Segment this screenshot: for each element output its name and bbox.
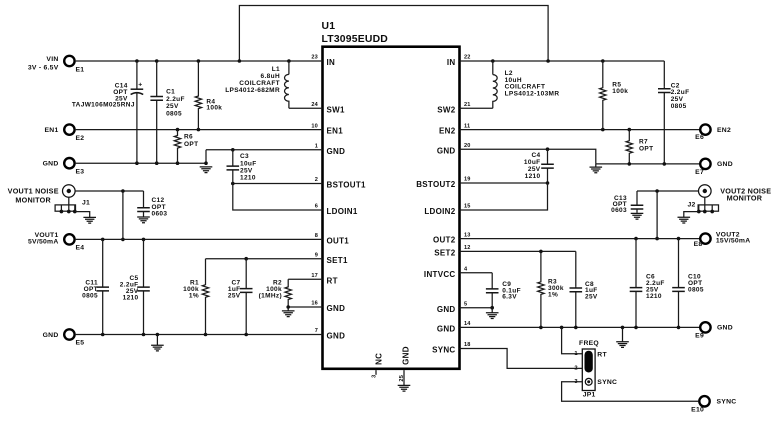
svg-text:RT: RT (327, 276, 338, 285)
svg-text:C4: C4 (531, 152, 540, 159)
terminal E6 EN2 (695, 124, 731, 141)
ground at C9 (486, 308, 499, 319)
capacitor C6 (630, 239, 665, 328)
svg-text:GND: GND (401, 346, 410, 365)
IC U1 LT3095EUDD (322, 21, 460, 369)
svg-text:24: 24 (311, 102, 318, 108)
svg-text:EN2: EN2 (717, 127, 731, 134)
pin 16 GND (311, 301, 345, 313)
pin 19 BSTOUT2 (416, 177, 470, 189)
svg-text:SW2: SW2 (437, 105, 455, 114)
svg-text:OPT: OPT (184, 141, 198, 148)
wire SET1 net (206, 257, 323, 261)
svg-text:6.3V: 6.3V (502, 294, 517, 301)
svg-text:SET1: SET1 (327, 256, 348, 265)
svg-text:GND: GND (43, 161, 59, 168)
svg-text:6.8uH: 6.8uH (261, 73, 280, 80)
svg-text:COILCRAFT: COILCRAFT (239, 80, 280, 87)
wire noise monitor J1 net (75, 189, 143, 241)
svg-text:GND: GND (437, 305, 456, 314)
capacitor C4 (524, 149, 554, 183)
svg-text:1210: 1210 (123, 294, 139, 301)
svg-text:LT3095EUDD: LT3095EUDD (322, 34, 389, 45)
terminal J1 VOUT1 noise monitor (8, 185, 75, 205)
svg-text:E9: E9 (695, 332, 704, 339)
svg-text:12: 12 (464, 245, 471, 251)
svg-text:GND: GND (437, 325, 456, 334)
svg-text:IN: IN (327, 58, 336, 67)
pin 6 LDOIN1 (315, 204, 358, 216)
ground at E3 net (200, 167, 213, 173)
svg-text:SET2: SET2 (434, 249, 455, 258)
pin 24 SW1 (311, 102, 345, 114)
connector J2 header (684, 197, 719, 217)
svg-text:25V: 25V (166, 103, 179, 110)
terminal E1 VIN (28, 56, 84, 74)
inductor L2 (493, 61, 560, 108)
svg-text:C3: C3 (240, 153, 249, 160)
svg-text:J1: J1 (82, 200, 90, 207)
wire LDOIN1 (233, 184, 323, 211)
svg-text:E3: E3 (76, 168, 85, 175)
svg-text:LPS4012-103MR: LPS4012-103MR (505, 91, 560, 98)
svg-text:SW1: SW1 (327, 105, 345, 114)
svg-text:1210: 1210 (646, 293, 662, 300)
svg-text:EN1: EN1 (327, 127, 344, 136)
pin 12 SET2 (434, 245, 470, 257)
svg-text:RT: RT (597, 351, 607, 358)
connector J1 header (55, 197, 90, 217)
svg-text:OUT1: OUT1 (327, 237, 350, 246)
svg-text:IN: IN (447, 58, 456, 67)
terminal E8 VOUT2 (694, 231, 751, 248)
svg-text:25V: 25V (240, 168, 253, 175)
svg-text:16: 16 (311, 301, 318, 307)
wire JP1 pin 1 to GND net (562, 327, 583, 353)
svg-text:1210: 1210 (240, 175, 256, 182)
svg-text:2: 2 (574, 366, 577, 372)
svg-text:5: 5 (464, 301, 467, 307)
terminal E7 GND (695, 159, 733, 176)
svg-text:E10: E10 (691, 406, 704, 413)
wire GND pin 1 (206, 148, 323, 152)
svg-text:BSTOUT2: BSTOUT2 (416, 180, 456, 189)
terminal E2 EN1 (45, 124, 85, 141)
capacitor C7 (228, 259, 253, 335)
svg-text:0805: 0805 (82, 292, 98, 299)
svg-text:EN1: EN1 (45, 127, 59, 134)
capacitor C12 (137, 191, 167, 217)
capacitor C2 (658, 61, 689, 164)
terminal E5 GND (43, 329, 85, 346)
svg-text:E8: E8 (694, 241, 703, 248)
wire RT net (288, 278, 322, 280)
wire EN2 net (460, 128, 701, 132)
svg-text:GND: GND (43, 332, 59, 339)
wire GND net E7 (596, 162, 700, 166)
inductor L1 (225, 61, 289, 108)
svg-text:BSTOUT1: BSTOUT1 (327, 181, 367, 190)
wire noise monitor J2 net (637, 189, 699, 240)
svg-text:15V/50mA: 15V/50mA (716, 238, 751, 245)
svg-text:FREQ: FREQ (579, 340, 599, 347)
svg-text:J2: J2 (687, 201, 695, 208)
pin 20 GND (437, 143, 471, 155)
svg-text:25V: 25V (528, 166, 541, 173)
svg-text:3: 3 (371, 375, 377, 378)
wire IN bus top jumper (239, 6, 548, 62)
capacitor C14 (72, 61, 143, 163)
wire SYNC pin 18 to JP1 pin 2 (460, 349, 583, 369)
wire VIN net E1 to pin 23 (76, 59, 323, 63)
svg-text:6: 6 (315, 204, 318, 210)
resistor R7 (626, 130, 653, 164)
pin 9 SET1 (315, 252, 348, 264)
ground at pin 20 (590, 164, 603, 173)
svg-text:18: 18 (464, 342, 471, 348)
svg-text:LDOIN1: LDOIN1 (327, 207, 358, 216)
wire JP1 pin 3 to E10 (562, 382, 699, 402)
wire SW1 (289, 107, 323, 109)
svg-text:E2: E2 (76, 135, 85, 142)
svg-text:7: 7 (315, 328, 318, 334)
svg-text:+: + (138, 82, 142, 89)
pin 2 BSTOUT1 (315, 177, 366, 189)
svg-text:E4: E4 (76, 245, 85, 252)
svg-text:GND: GND (327, 332, 346, 341)
wire BSTOUT1 (231, 182, 323, 186)
pin 7 GND (315, 328, 346, 340)
capacitor C5 (120, 239, 150, 334)
svg-text:E7: E7 (695, 169, 704, 176)
svg-text:GND: GND (327, 304, 346, 313)
wire GND pin 20 (460, 147, 596, 164)
svg-text:22: 22 (464, 55, 471, 61)
svg-text:L1: L1 (272, 66, 280, 73)
svg-text:VIN: VIN (46, 56, 58, 63)
resistor R2 (259, 279, 292, 307)
svg-text:R7: R7 (639, 138, 648, 145)
svg-text:15: 15 (464, 204, 471, 210)
svg-text:VOUT1 NOISE: VOUT1 NOISE (8, 186, 59, 195)
ground at E5 net (151, 335, 164, 351)
resistor R3 (538, 251, 564, 327)
jumper JP1 FREQ (574, 340, 617, 398)
wire IN2 net pin 22 to C2 (460, 59, 665, 63)
terminal E4 VOUT1 (28, 232, 84, 252)
pin 22 IN (447, 55, 471, 67)
wire GND net E3 (76, 150, 208, 165)
pin 23 IN (311, 55, 335, 67)
wire SET2 net (460, 250, 576, 254)
pin 3 NC (371, 353, 383, 378)
terminal E3 GND (43, 158, 85, 175)
svg-text:EN2: EN2 (439, 127, 456, 136)
svg-text:100k: 100k (612, 88, 628, 95)
pin 14 GND (437, 321, 471, 333)
svg-text:5V/50mA: 5V/50mA (28, 239, 58, 246)
pin 25 GND (399, 346, 411, 385)
svg-text:20: 20 (464, 143, 471, 149)
svg-text:25V: 25V (585, 293, 598, 300)
svg-text:0603: 0603 (611, 207, 627, 214)
terminal E10 SYNC (691, 396, 736, 413)
svg-text:23: 23 (311, 55, 318, 61)
ground at J2 (678, 217, 691, 223)
svg-text:2: 2 (315, 177, 318, 183)
ground at pin 14 net (616, 327, 629, 347)
svg-text:INTVCC: INTVCC (424, 270, 456, 279)
svg-text:U1: U1 (322, 21, 336, 32)
wire OUT2 net pin 13 to E8 (460, 237, 701, 241)
svg-text:TAJW106M025RNJ: TAJW106M025RNJ (72, 102, 135, 109)
capacitor C11 (82, 239, 109, 334)
pin 4 INTVCC (424, 267, 468, 279)
svg-text:GND: GND (717, 325, 733, 332)
wire BSTOUT2 (460, 181, 550, 185)
wire GND pin 5 (460, 306, 495, 310)
svg-text:9: 9 (315, 252, 318, 258)
svg-text:1210: 1210 (525, 173, 541, 180)
svg-text:(1MHz): (1MHz) (259, 293, 282, 300)
resistor R6 (174, 130, 198, 164)
svg-text:10uF: 10uF (524, 159, 541, 166)
svg-text:NC: NC (374, 353, 383, 365)
svg-text:GND: GND (327, 147, 346, 156)
wire VOUT1 net E4 to pin 8 (76, 238, 323, 242)
svg-text:17: 17 (311, 273, 318, 279)
svg-text:13: 13 (464, 232, 471, 238)
resistor R4 (195, 61, 222, 130)
terminal E9 GND (695, 322, 733, 339)
pin 15 LDOIN2 (424, 204, 470, 216)
ground at R2 (282, 307, 295, 317)
svg-text:SYNC: SYNC (597, 379, 617, 386)
pin 10 EN1 (311, 123, 343, 135)
ground at C12 (137, 215, 150, 223)
svg-text:LDOIN2: LDOIN2 (424, 207, 455, 216)
wire SW2 (460, 107, 493, 109)
pin 18 SYNC (432, 342, 471, 354)
svg-text:MONITOR: MONITOR (727, 193, 763, 202)
wire GND net E5 to pin 7 (76, 333, 323, 337)
pin 21 SW2 (437, 102, 470, 114)
capacitor C9 (486, 273, 521, 308)
pin 17 RT (311, 273, 337, 285)
svg-text:0805: 0805 (166, 110, 182, 117)
svg-text:SYNC: SYNC (432, 346, 455, 355)
svg-text:1: 1 (315, 144, 318, 150)
ground at J1 (83, 217, 96, 223)
svg-text:JP1: JP1 (583, 391, 596, 398)
svg-text:8: 8 (315, 233, 318, 239)
svg-text:21: 21 (464, 102, 471, 108)
svg-text:LPS4012-682MR: LPS4012-682MR (225, 87, 280, 94)
terminal J2 VOUT2 noise monitor (699, 185, 772, 203)
resistor R5 (600, 61, 629, 130)
capacitor C3 (227, 150, 257, 184)
svg-text:100k: 100k (206, 105, 222, 112)
svg-text:MONITOR: MONITOR (15, 196, 51, 205)
svg-text:19: 19 (464, 177, 471, 183)
svg-text:E5: E5 (76, 340, 85, 347)
svg-text:10: 10 (311, 123, 318, 129)
svg-text:1%: 1% (548, 291, 558, 298)
wire GND pin 16 (286, 305, 322, 309)
svg-text:OUT2: OUT2 (433, 236, 456, 245)
capacitor C1 (150, 61, 184, 163)
wire INTVCC (460, 272, 493, 274)
svg-text:OPT: OPT (639, 145, 653, 152)
pin 11 EN2 (439, 123, 470, 135)
svg-text:E6: E6 (695, 134, 704, 141)
svg-text:0603: 0603 (152, 210, 168, 217)
svg-text:3V - 6.5V: 3V - 6.5V (28, 64, 59, 71)
svg-text:10uF: 10uF (240, 160, 257, 167)
pin 1 GND (315, 144, 346, 156)
capacitor C10 (672, 239, 704, 328)
svg-text:E1: E1 (76, 66, 85, 73)
pin 5 GND (437, 301, 468, 313)
svg-text:0805: 0805 (688, 287, 704, 294)
svg-text:2.2uF: 2.2uF (166, 96, 185, 103)
svg-text:GND: GND (437, 146, 456, 155)
svg-text:25V: 25V (228, 293, 241, 300)
ground at pin 25 (398, 385, 411, 391)
svg-text:SYNC: SYNC (717, 399, 737, 406)
capacitor C13 (611, 191, 643, 214)
pin 8 OUT1 (315, 233, 350, 245)
pin 13 OUT2 (433, 232, 471, 244)
svg-text:11: 11 (464, 123, 470, 129)
svg-text:0805: 0805 (671, 103, 687, 110)
svg-text:25: 25 (399, 375, 405, 382)
wire GND net pin 14 to E9 (460, 326, 701, 330)
svg-text:C1: C1 (166, 89, 175, 96)
capacitor C8 (570, 251, 598, 327)
svg-text:GND: GND (717, 161, 733, 168)
wire LDOIN2 (460, 183, 548, 210)
ground at C13 (631, 213, 644, 220)
svg-text:R6: R6 (184, 134, 193, 141)
resistor R1 (183, 259, 209, 335)
wire EN1 net (76, 128, 323, 132)
svg-text:14: 14 (464, 321, 471, 327)
svg-text:1%: 1% (189, 293, 199, 300)
